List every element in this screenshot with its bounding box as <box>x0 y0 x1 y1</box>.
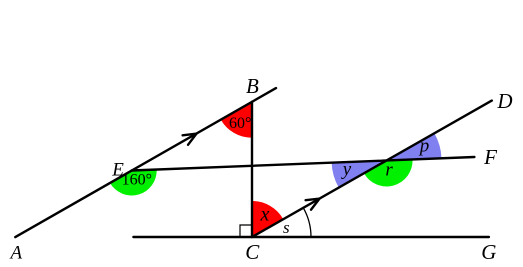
svg-text:s: s <box>283 218 290 237</box>
svg-text:r: r <box>385 160 393 181</box>
svg-text:160°: 160° <box>122 171 152 188</box>
svg-text:G: G <box>481 240 496 264</box>
svg-text:A: A <box>8 243 22 264</box>
svg-text:p: p <box>418 136 430 157</box>
svg-text:F: F <box>483 145 497 169</box>
svg-text:60°: 60° <box>229 115 251 132</box>
svg-text:B: B <box>246 74 259 98</box>
svg-text:x: x <box>260 204 270 226</box>
svg-text:D: D <box>496 89 512 113</box>
svg-text:C: C <box>245 240 260 264</box>
svg-text:y: y <box>341 159 352 180</box>
